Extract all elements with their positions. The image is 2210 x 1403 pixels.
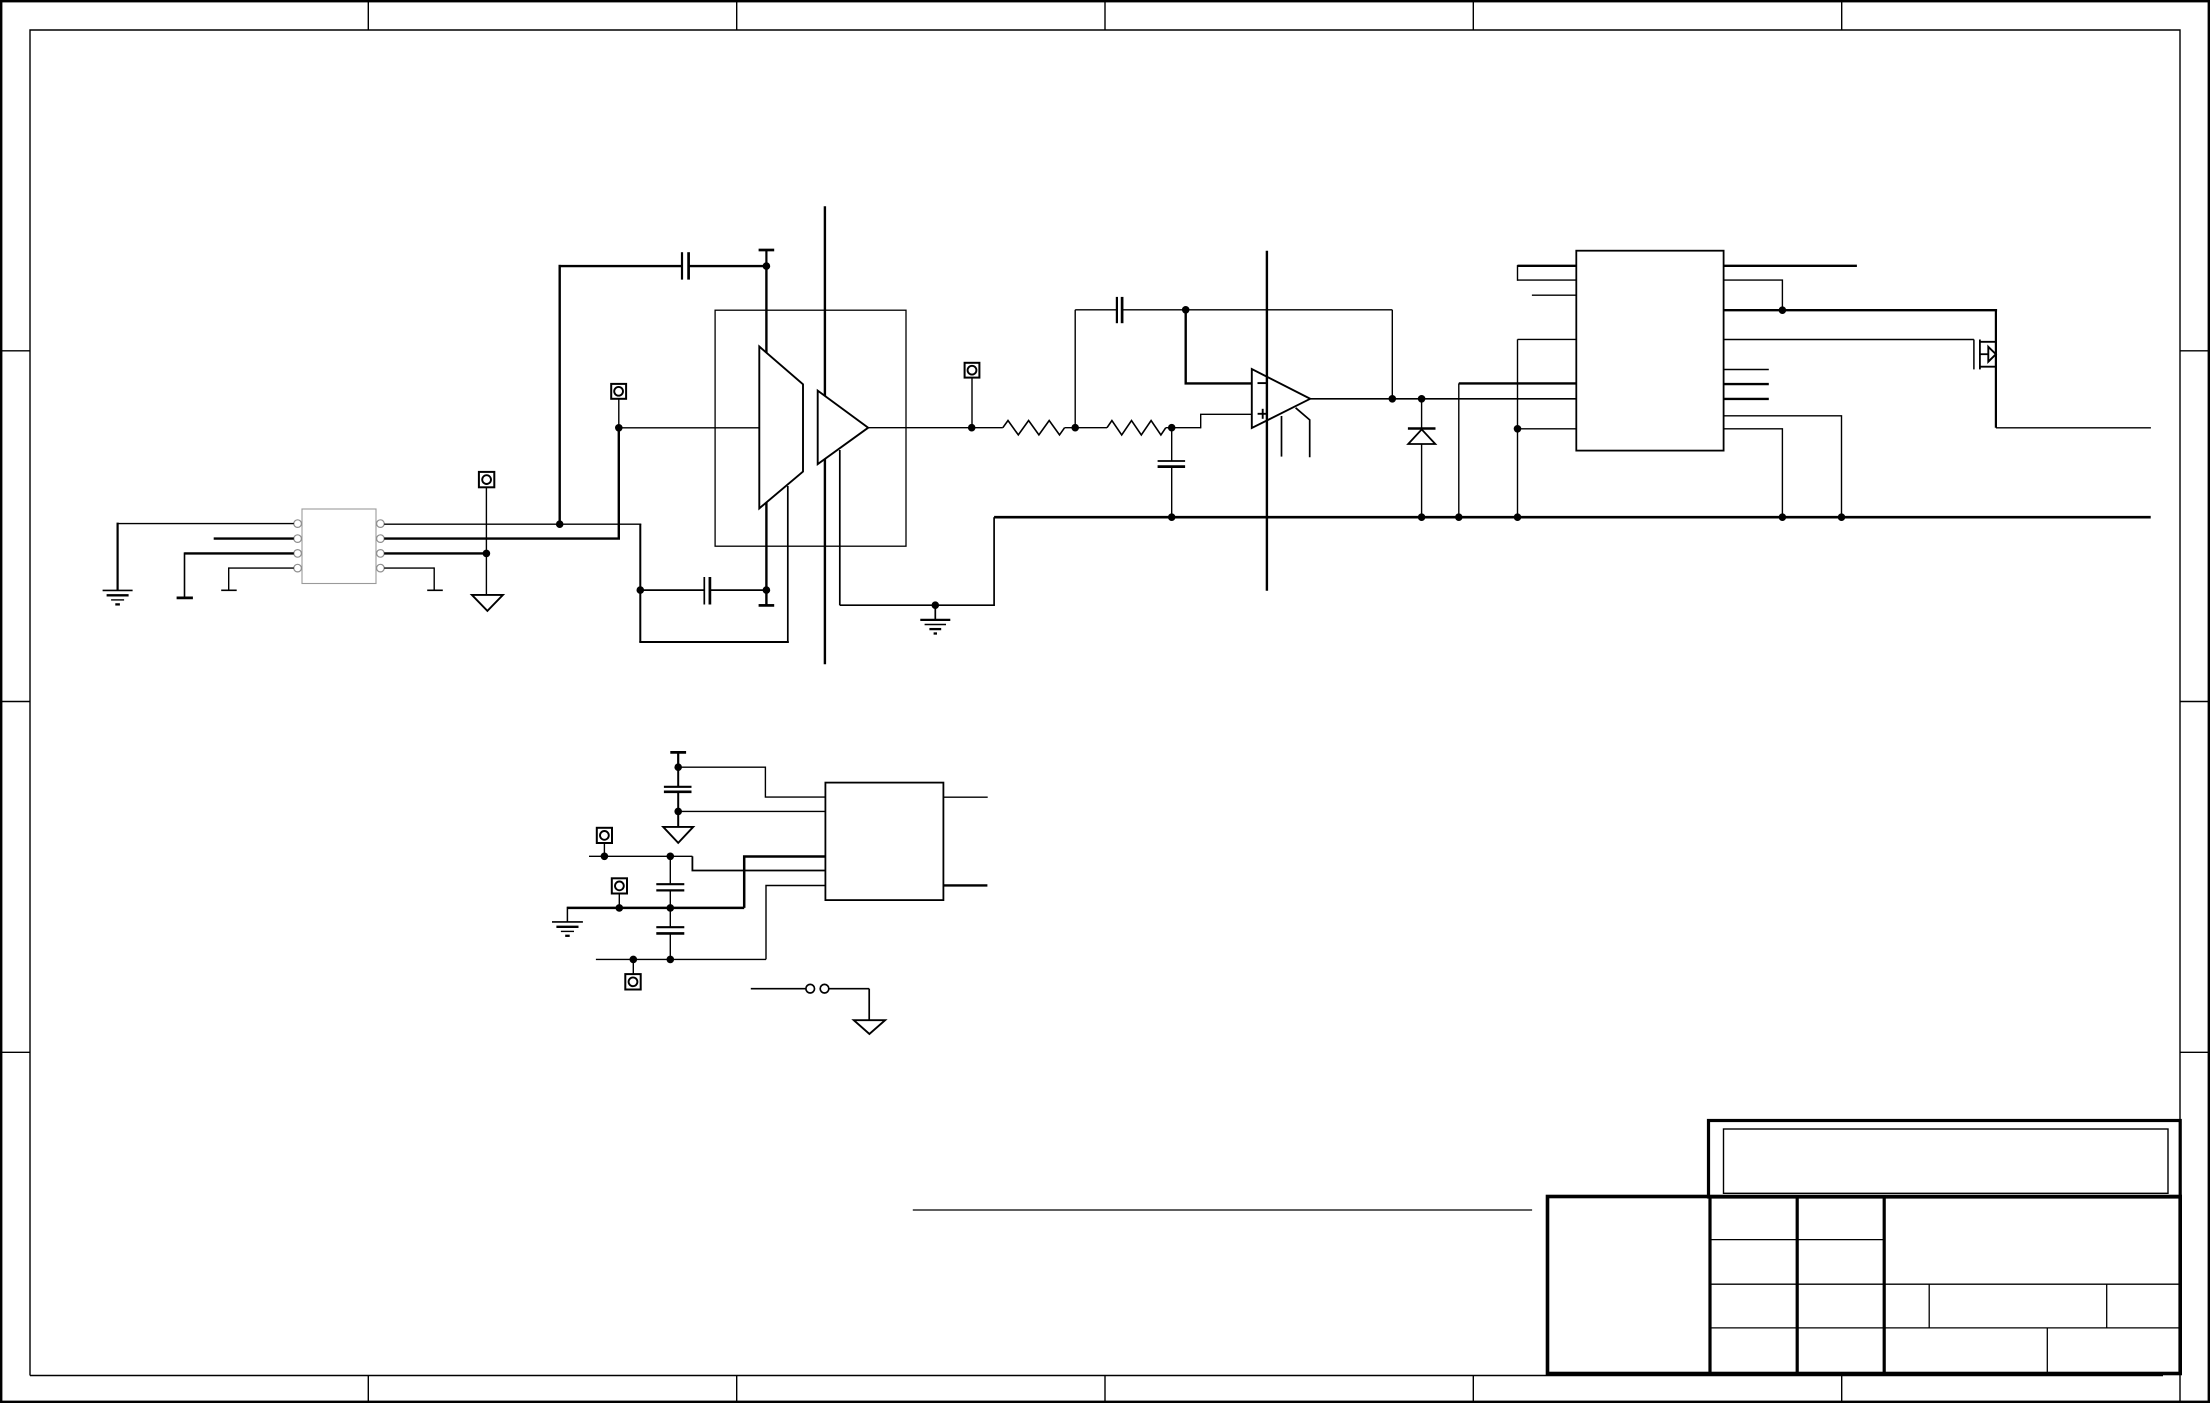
wire rail to earth bbox=[566, 907, 568, 922]
wire U1 pin3 bbox=[185, 552, 294, 554]
wire U4 thick input drop bbox=[1458, 383, 1460, 517]
junction dot C2 left bbox=[637, 586, 645, 594]
wire U4 right stub 399 bbox=[1724, 398, 1769, 400]
wire U4 right stub 384 bbox=[1724, 383, 1769, 385]
junction dot TP6 bbox=[630, 956, 638, 964]
wire lower ground rail bbox=[567, 907, 744, 910]
title block size cell divider bbox=[1928, 1284, 1930, 1328]
junction dot feedback return bbox=[1389, 395, 1397, 403]
wire C1 right bbox=[689, 265, 767, 267]
wire U5 right stub lower bbox=[943, 884, 987, 886]
junction dot C6 bottom rail bbox=[667, 904, 675, 912]
wire inverting input bbox=[1186, 309, 1252, 384]
zone tick left 3 bbox=[1, 1051, 30, 1053]
terminal bar lower supply bbox=[670, 751, 686, 754]
wire R2 out bbox=[1166, 427, 1201, 429]
U1 pin 6 circle bbox=[377, 550, 385, 558]
junction dot rail C3 bbox=[1168, 513, 1176, 521]
wire R1 to R2 bbox=[1065, 427, 1107, 429]
wire U4 ground pin upper bbox=[1518, 338, 1577, 340]
wire pin8 drop bbox=[639, 524, 641, 642]
capacitor C7 bbox=[656, 908, 684, 960]
junction dot drain net bbox=[1779, 306, 1787, 314]
wire feedback drop bbox=[1391, 310, 1393, 399]
wire C1 riser bbox=[559, 265, 561, 525]
terminal bar pin4 bbox=[221, 589, 237, 591]
wire U4 right pin jog bbox=[1724, 280, 1783, 310]
resistor R1 bbox=[1003, 421, 1065, 435]
junction dot C2 right bbox=[763, 586, 771, 594]
op-amp plus label bbox=[1258, 409, 1268, 419]
notes separator line bbox=[913, 1209, 1532, 1211]
title block divider vertical 2 bbox=[1796, 1197, 1799, 1374]
wire U1 pin6 row bbox=[384, 552, 486, 554]
wire SW1 to ground bbox=[868, 989, 870, 1021]
zone tick right 1 bbox=[2180, 350, 2209, 352]
test point TP2 bbox=[611, 384, 626, 399]
wire TP1 stem bbox=[485, 487, 487, 553]
wire buffer ground drop bbox=[839, 450, 841, 605]
terminal bar pin5 bbox=[427, 589, 443, 591]
wire U4 right stub 369 bbox=[1724, 369, 1769, 371]
junction dot C1 right bbox=[763, 262, 771, 270]
IC U5 body bbox=[825, 783, 943, 901]
title block lower table outer bbox=[1548, 1197, 2181, 1374]
U1 pin 5 circle bbox=[377, 564, 385, 572]
wire U4 ground pin lower bbox=[1518, 428, 1577, 430]
junction dot lower supply bbox=[674, 763, 682, 771]
wire U4 left jumper thick bbox=[1518, 265, 1577, 267]
junction dot feedback tap bbox=[1071, 424, 1079, 432]
junction dot rail U4 pin B bbox=[1514, 513, 1522, 521]
title block upper box bbox=[1709, 1121, 2181, 1198]
zone tick top 5 bbox=[1841, 1, 1843, 30]
zone tick bottom 3 bbox=[1104, 1376, 1106, 1403]
terminal bar net V1 top bbox=[759, 250, 775, 266]
wire gate net bbox=[1724, 339, 1974, 341]
title block sheet cell divider bbox=[2046, 1328, 2048, 1374]
U1 pin 3 circle bbox=[294, 550, 302, 558]
wire noninverting jog bbox=[1200, 414, 1252, 427]
op-amp U3 bbox=[1252, 369, 1310, 428]
zone tick top 1 bbox=[367, 1, 369, 30]
junction dot inverting branch bbox=[1182, 306, 1190, 314]
wire op-amp output bbox=[1311, 398, 1577, 400]
wire vertical net V1 bbox=[765, 266, 767, 605]
transistor Q1 MOSFET bbox=[1974, 310, 1996, 428]
ground G1 earth bbox=[103, 590, 133, 604]
junction dot rail U4 right pin A bbox=[1779, 513, 1787, 521]
border inner bottom edge bbox=[30, 1375, 2163, 1377]
wire U5 pin direct bbox=[678, 810, 825, 812]
junction dot U4 ground pins bbox=[1514, 425, 1522, 433]
junction dot pin6 TP bbox=[483, 550, 491, 558]
junction dot R2 out bbox=[1168, 424, 1176, 432]
wire ground run riser bbox=[993, 517, 995, 606]
junction dot C6 top bbox=[667, 853, 675, 861]
diode D1 bbox=[1408, 399, 1436, 517]
wire feedback top right bbox=[1122, 309, 1392, 311]
wire U1 pin7 row bbox=[384, 428, 619, 539]
junction dot C5 bottom bbox=[674, 808, 682, 816]
wire U4 right thick stub bbox=[1724, 265, 1857, 267]
title block row line 1 bbox=[1710, 1239, 1884, 1241]
zone tick bottom 5 bbox=[1841, 1376, 1843, 1403]
zone tick bottom 4 bbox=[1472, 1376, 1474, 1403]
title block row line 2 bbox=[1710, 1283, 2180, 1285]
wire bottom return bbox=[639, 641, 789, 643]
test point TP1 bbox=[479, 472, 494, 487]
wire U4 left jumper thin bbox=[1518, 279, 1577, 281]
capacitor C4 bbox=[1117, 297, 1122, 323]
wire U1 pin2 stub bbox=[214, 537, 294, 539]
op-amp power stub 1 bbox=[1281, 416, 1283, 457]
wire row A bbox=[589, 855, 692, 857]
buffer triangle U2 bbox=[818, 391, 869, 465]
zone tick left 1 bbox=[1, 350, 30, 352]
zone tick right 3 bbox=[2180, 1051, 2209, 1053]
wire U4 left stub bbox=[1532, 294, 1576, 296]
capacitor C5 bbox=[664, 767, 692, 811]
test point TP4 bbox=[597, 828, 612, 843]
U1 pin 2 circle bbox=[294, 535, 302, 543]
op-amp power stub 2 bbox=[1296, 408, 1310, 457]
title block document-number inner box bbox=[1724, 1129, 2169, 1193]
wire TP4 stem bbox=[603, 843, 605, 856]
wire C1 left bbox=[559, 265, 683, 267]
wire ground rail bbox=[994, 516, 2151, 519]
module box U2 bbox=[715, 310, 906, 546]
wire TP3 stem bbox=[971, 378, 973, 428]
wire U5 right stub upper bbox=[943, 796, 987, 798]
wire U5 pin jog upper bbox=[678, 767, 825, 797]
zone tick bottom 2 bbox=[736, 1376, 738, 1403]
zone tick left 2 bbox=[1, 701, 30, 703]
wire return riser bbox=[787, 486, 789, 643]
capacitor C2 bbox=[704, 577, 710, 605]
wire ground stem lower bbox=[677, 811, 679, 827]
wire row D bbox=[596, 958, 766, 960]
test point TP3 bbox=[965, 363, 980, 378]
title block divider vertical 3 bbox=[1883, 1197, 1886, 1374]
terminal bar pin3 bbox=[177, 597, 193, 600]
wire TP5 stem bbox=[618, 894, 620, 908]
test point TP5 bbox=[612, 878, 627, 893]
mux trapezoid U2 bbox=[759, 347, 803, 509]
wire U1 pin8 row bbox=[384, 523, 641, 525]
wire U1 pin4 bbox=[229, 567, 294, 569]
op-amp minus label bbox=[1258, 382, 1268, 384]
zone tick top 4 bbox=[1472, 1, 1474, 30]
junction dot rail U4 right pin B bbox=[1838, 513, 1846, 521]
wire lower supply stem bbox=[677, 752, 679, 767]
IC U4 body bbox=[1576, 251, 1723, 451]
junction dot rail U4 pin A bbox=[1455, 513, 1463, 521]
zone tick right 2 bbox=[2180, 701, 2209, 703]
wire row D jog to U5 bbox=[766, 886, 825, 960]
wire U1 pin1 to ground bbox=[118, 523, 294, 525]
IC U1 body bbox=[302, 509, 376, 584]
U1 pin 1 circle bbox=[294, 520, 302, 528]
wire analog ground run bbox=[840, 604, 994, 606]
wire feedback top left bbox=[1075, 309, 1117, 311]
wire U4 thick input bbox=[1459, 382, 1577, 384]
wire TP1 node to ground bbox=[485, 553, 487, 595]
U1 pin 8 circle bbox=[377, 520, 385, 528]
zone tick top 3 bbox=[1104, 1, 1106, 30]
test point TP6 bbox=[625, 974, 640, 989]
U1 pin 4 circle bbox=[294, 564, 302, 572]
wire mux input bbox=[619, 427, 760, 429]
title block row line 3 bbox=[1710, 1327, 2180, 1329]
U1 pin 7 circle bbox=[377, 535, 385, 543]
wire tall vertical A bbox=[824, 206, 826, 664]
ground G3 earth bbox=[552, 922, 583, 936]
wire thick pin riser bbox=[744, 857, 825, 908]
capacitor C1 bbox=[682, 252, 689, 279]
junction dot ground run bbox=[932, 601, 940, 609]
junction dot C7 bottom bbox=[667, 956, 675, 964]
wire pin4 drop bbox=[228, 567, 230, 590]
title block rev cell divider bbox=[2106, 1284, 2108, 1328]
wire U4 jumper link bbox=[1517, 265, 1519, 281]
wire U4 ground drop bbox=[1517, 339, 1519, 517]
wire buffer output bbox=[868, 427, 1003, 429]
wire row A jog to U5 bbox=[692, 856, 825, 870]
ground triangle A bbox=[472, 595, 503, 611]
wire feedback riser bbox=[1074, 310, 1076, 428]
junction dot diode tap bbox=[1418, 395, 1426, 403]
wire drain net bbox=[1724, 309, 1998, 311]
title block divider vertical 1 bbox=[1708, 1197, 1711, 1374]
wire C2 right bbox=[710, 589, 767, 591]
wire TP6 stem bbox=[632, 959, 634, 974]
wire tall vertical B bbox=[1266, 251, 1268, 591]
wire U1 pin5 bbox=[384, 567, 434, 569]
junction dot mux input bbox=[615, 424, 623, 432]
junction dot row1 riser bbox=[556, 520, 564, 528]
wire Q1 source bbox=[1996, 427, 2151, 429]
wire U4 right ground pin A bbox=[1724, 416, 1842, 517]
terminal bar net V1 bottom bbox=[759, 604, 775, 607]
wire pin1 ground drop bbox=[116, 523, 118, 591]
ground G2 earth bbox=[920, 605, 950, 633]
ground triangle D bbox=[854, 1020, 885, 1034]
wire U4 right ground pin B bbox=[1724, 429, 1783, 517]
resistor R2 bbox=[1107, 421, 1166, 435]
junction dot rail D1 bbox=[1418, 513, 1426, 521]
capacitor C3 bbox=[1158, 428, 1186, 518]
capacitor C6 bbox=[656, 856, 684, 908]
wire pin3 drop bbox=[184, 552, 186, 597]
zone tick bottom 1 bbox=[367, 1376, 369, 1403]
ground triangle B bbox=[663, 827, 693, 843]
zone tick top 2 bbox=[736, 1, 738, 30]
junction dot TP5 rail bbox=[616, 904, 624, 912]
wire TP2 stem bbox=[618, 399, 620, 428]
wire C2 left bbox=[640, 589, 704, 591]
junction dot output TP bbox=[968, 424, 976, 432]
junction dot TP4 bbox=[601, 853, 609, 861]
switch SW1 bbox=[751, 984, 869, 993]
wire pin5 drop bbox=[433, 567, 435, 590]
